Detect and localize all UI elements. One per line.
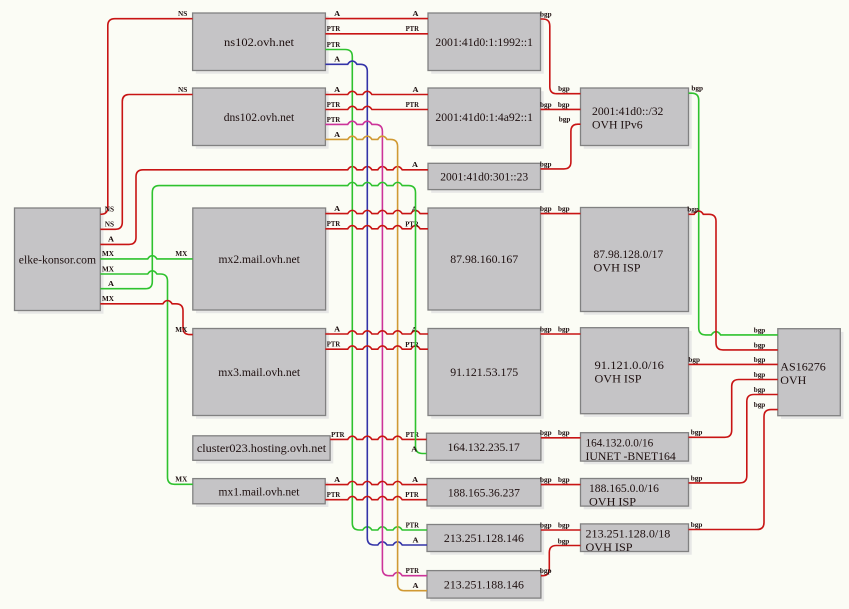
box mx1: mx1.mail.ovh.net (193, 479, 329, 507)
svg-text:2001:41d0:1:1992::1: 2001:41d0:1:1992::1 (435, 35, 533, 49)
svg-text:bgp: bgp (558, 84, 570, 93)
svg-text:A: A (334, 85, 340, 94)
svg-text:mx2.mail.ovh.net: mx2.mail.ovh.net (219, 252, 301, 266)
svg-text:bgp: bgp (754, 385, 766, 394)
svg-text:PTR: PTR (327, 100, 341, 109)
svg-text:87.98.128.0/17: 87.98.128.0/17 (594, 247, 664, 261)
wire edge dns102 A 2001:41d0:1:4a92::1 (325, 85, 428, 95)
wire edge mx2 PTR 87.98.160.167 (325, 219, 428, 229)
svg-text:A: A (412, 160, 418, 169)
svg-text:PTR: PTR (406, 24, 420, 33)
svg-text:213.251.128.146: 213.251.128.146 (444, 531, 524, 545)
svg-text:bgp: bgp (691, 84, 703, 93)
svg-text:bgp: bgp (540, 428, 552, 437)
svg-text:A: A (334, 204, 340, 213)
svg-text:bgp: bgp (691, 473, 703, 482)
svg-text:A: A (108, 235, 114, 244)
wire edge 91.121.0.0/16 bgp AS16276 (688, 355, 777, 365)
svg-text:bgp: bgp (558, 324, 570, 333)
wire edge elke-konsor.com A 2001:41d0:301::23 (100, 160, 428, 244)
svg-text:IUNET -BNET164: IUNET -BNET164 (586, 449, 676, 463)
box cluster: cluster023.hosting.ovh.net (193, 436, 333, 464)
svg-text:OVH ISP: OVH ISP (589, 495, 636, 509)
svg-text:bgp: bgp (558, 100, 570, 109)
svg-text:elke-konsor.com: elke-konsor.com (19, 252, 97, 266)
wire edge 87.98.160.167 bgp 87.98.128.0/17 (540, 204, 581, 214)
wire edge ns102 PTR 213.251.128.146 (325, 40, 427, 530)
box ns102: ns102.ovh.net (193, 13, 329, 74)
svg-text:OVH ISP: OVH ISP (586, 540, 633, 554)
svg-text:bgp: bgp (558, 536, 570, 545)
svg-text:PTR: PTR (327, 40, 341, 49)
svg-text:bgp: bgp (754, 400, 766, 409)
svg-text:mx3.mail.ovh.net: mx3.mail.ovh.net (218, 365, 301, 379)
svg-text:PTR: PTR (406, 100, 420, 109)
wire edge elke-konsor.com NS ns102.ovh.net (100, 9, 192, 214)
svg-text:188.165.0.0/16: 188.165.0.0/16 (589, 481, 659, 495)
svg-text:ns102.ovh.net: ns102.ovh.net (224, 35, 295, 49)
svg-text:A: A (334, 324, 340, 333)
svg-text:PTR: PTR (327, 490, 341, 499)
box netv6: 2001:41d0::/32 (581, 88, 692, 149)
svg-text:bgp: bgp (558, 428, 570, 437)
wire edge 213.251.128.0/18 bgp AS16276 (689, 400, 778, 530)
svg-text:PTR: PTR (327, 115, 341, 124)
svg-text:bgp: bgp (558, 475, 570, 484)
box ip1992: 2001:41d0:1:1992::1 (428, 13, 544, 74)
svg-text:bgp: bgp (754, 340, 766, 349)
box ip2131: 213.251.128.146 (427, 525, 544, 555)
svg-text:PTR: PTR (406, 566, 420, 575)
wire edge 2001:41d0:1:4a92::1 bgp OVH-IPv6 (540, 100, 581, 110)
svg-text:OVH ISP: OVH ISP (595, 372, 642, 386)
wire edge 164.132.0.0/16 bgp AS16276 (689, 370, 778, 437)
box mx3: mx3.mail.ovh.net (193, 329, 329, 419)
svg-text:PTR: PTR (327, 219, 341, 228)
wire edge 164.132.235.17 bgp 164.132.0.0/16 (540, 428, 581, 438)
svg-text:bgp: bgp (559, 115, 571, 124)
box net213: 213.251.128.0/18 (581, 524, 692, 555)
svg-text:A: A (413, 85, 419, 94)
wire edge ns102 PTR 2001:41d0:1:1992::1 (325, 24, 428, 34)
svg-text:bgp: bgp (540, 204, 552, 213)
wire edge elke-konsor.com MX mx1.mail.ovh.net (100, 264, 193, 484)
wire edge 213.251.128.146 bgp 213.251.128.0/18 (540, 520, 581, 530)
svg-text:PTR: PTR (327, 24, 341, 33)
svg-text:MX: MX (175, 475, 187, 484)
svg-text:PTR: PTR (331, 430, 345, 439)
wire edge 188.165.36.237 bgp 188.165.0.0/16 (540, 475, 581, 485)
wire edge dns102 A 213.251.188.146 (325, 130, 427, 591)
wire edge 2001:41d0:1:1992::1 bgp OVH-IPv6 (540, 9, 581, 93)
svg-text:87.98.160.167: 87.98.160.167 (450, 252, 518, 266)
svg-text:bgp: bgp (540, 9, 552, 18)
svg-text:A: A (413, 9, 419, 18)
wire edge mx3 PTR 91.121.53.175 (325, 340, 428, 350)
svg-text:2001:41d0:301::23: 2001:41d0:301::23 (440, 170, 528, 184)
wire edge ns102 A 2001:41d0:1:1992::1 (325, 9, 428, 19)
svg-text:MX: MX (102, 264, 114, 273)
svg-text:AS16276: AS16276 (780, 360, 826, 374)
wire edge cluster023 PTR 164.132.235.17 (330, 430, 426, 440)
svg-text:bgp: bgp (688, 355, 700, 364)
svg-text:A: A (334, 9, 340, 18)
wire edge 91.121.53.175 bgp 91.121.0.0/16 (540, 324, 581, 334)
wire edge OVH-IPv6 bgp AS16276 (689, 84, 778, 335)
svg-text:bgp: bgp (691, 520, 703, 529)
svg-text:A: A (334, 130, 340, 139)
svg-text:A: A (411, 444, 417, 453)
svg-text:cluster023.hosting.ovh.net: cluster023.hosting.ovh.net (197, 441, 327, 455)
svg-text:dns102.ovh.net: dns102.ovh.net (224, 110, 295, 124)
box mx2: mx2.mail.ovh.net (193, 208, 329, 313)
wire edge 213.251.188.146 bgp 213.251.128.0/18 (540, 536, 581, 575)
svg-text:A: A (108, 279, 114, 288)
svg-text:A: A (334, 475, 340, 484)
svg-text:OVH ISP: OVH ISP (594, 260, 641, 274)
wire edge mx2 A 87.98.160.167 (325, 204, 428, 214)
wire edge elke-konsor.com MX mx3.mail.ovh.net (100, 294, 193, 335)
box elke: elke-konsor.com (15, 208, 104, 314)
wire edge dns102 PTR 2001:41d0:1:4a92::1 (325, 100, 428, 110)
svg-text:164.132.235.17: 164.132.235.17 (448, 440, 520, 454)
svg-text:PTR: PTR (405, 490, 419, 499)
svg-text:PTR: PTR (405, 340, 419, 349)
svg-text:MX: MX (102, 294, 114, 303)
svg-text:A: A (412, 475, 418, 484)
box ip4a92: 2001:41d0:1:4a92::1 (428, 88, 544, 149)
svg-text:PTR: PTR (327, 340, 341, 349)
svg-text:bgp: bgp (687, 205, 699, 214)
svg-text:bgp: bgp (540, 324, 552, 333)
svg-text:NS: NS (178, 85, 187, 94)
svg-text:2001:41d0:1:4a92::1: 2001:41d0:1:4a92::1 (435, 110, 533, 124)
svg-text:164.132.0.0/16: 164.132.0.0/16 (586, 435, 654, 449)
svg-text:bgp: bgp (754, 325, 766, 334)
svg-text:bgp: bgp (540, 159, 552, 168)
wire edge elke-konsor.com NS dns102.ovh.net (100, 85, 192, 229)
box ip301: 2001:41d0:301::23 (428, 163, 544, 193)
box net164: 164.132.0.0/16 (581, 433, 692, 465)
svg-text:bgp: bgp (558, 204, 570, 213)
svg-text:bgp: bgp (558, 520, 570, 529)
svg-text:bgp: bgp (691, 428, 703, 437)
svg-text:A: A (413, 581, 419, 590)
svg-text:OVH IPv6: OVH IPv6 (592, 118, 643, 132)
svg-text:MX: MX (175, 325, 187, 334)
svg-text:A: A (411, 205, 417, 214)
box as: AS16276 (778, 329, 844, 419)
box ip2132: 213.251.188.146 (427, 571, 544, 602)
svg-text:bgp: bgp (540, 475, 552, 484)
svg-text:bgp: bgp (540, 100, 552, 109)
svg-text:213.251.128.0/18: 213.251.128.0/18 (586, 527, 671, 541)
svg-text:91.121.53.175: 91.121.53.175 (450, 365, 518, 379)
svg-text:2001:41d0::/32: 2001:41d0::/32 (592, 104, 663, 118)
svg-text:mx1.mail.ovh.net: mx1.mail.ovh.net (219, 484, 301, 498)
svg-text:PTR: PTR (406, 430, 420, 439)
svg-text:NS: NS (105, 205, 114, 214)
box dns102: dns102.ovh.net (193, 88, 329, 149)
box net188: 188.165.0.0/16 (581, 479, 692, 510)
svg-text:bgp: bgp (540, 520, 552, 529)
box ip91121: 91.121.53.175 (428, 329, 544, 419)
wire edge elke-konsor.com A 164.132.235.17 (100, 182, 426, 453)
wire edge ns102 A 213.251.128.146 (325, 55, 427, 545)
wire edge elke-konsor.com MX mx2.mail.ovh.net (100, 249, 193, 259)
box net91: 91.121.0.0/16 (581, 328, 692, 417)
svg-text:NS: NS (178, 9, 187, 18)
wire edge mx3 A 91.121.53.175 (325, 324, 428, 334)
svg-text:A: A (413, 535, 419, 544)
svg-text:91.121.0.0/16: 91.121.0.0/16 (595, 358, 664, 372)
wire edge mx1 PTR 188.165.36.237 (325, 490, 427, 500)
svg-text:PTR: PTR (405, 220, 419, 229)
wire edge 87.98.128.0/17 bgp AS16276 (687, 205, 777, 350)
wire edge mx1 A 188.165.36.237 (325, 475, 427, 485)
box net8798: 87.98.128.0/17 (581, 208, 692, 315)
wire edge 188.165.0.0/16 bgp AS16276 (689, 385, 778, 483)
svg-text:A: A (411, 325, 417, 334)
svg-text:bgp: bgp (540, 566, 552, 575)
svg-text:A: A (334, 55, 340, 64)
svg-text:bgp: bgp (754, 355, 766, 364)
wire edge 2001:41d0:301::23 bgp OVH-IPv6 (540, 115, 581, 169)
wire edge dns102 PTR 213.251.188.146 (325, 115, 427, 576)
svg-text:188.165.36.237: 188.165.36.237 (448, 485, 520, 499)
box ip188: 188.165.36.237 (427, 479, 544, 510)
svg-text:PTR: PTR (406, 520, 420, 529)
svg-text:MX: MX (175, 249, 187, 258)
svg-text:213.251.188.146: 213.251.188.146 (444, 578, 524, 592)
box ip164: 164.132.235.17 (427, 433, 545, 463)
svg-text:MX: MX (102, 249, 114, 258)
box ip8798: 87.98.160.167 (428, 208, 544, 313)
svg-text:bgp: bgp (754, 370, 766, 379)
svg-text:NS: NS (105, 220, 114, 229)
svg-text:OVH: OVH (780, 373, 806, 387)
